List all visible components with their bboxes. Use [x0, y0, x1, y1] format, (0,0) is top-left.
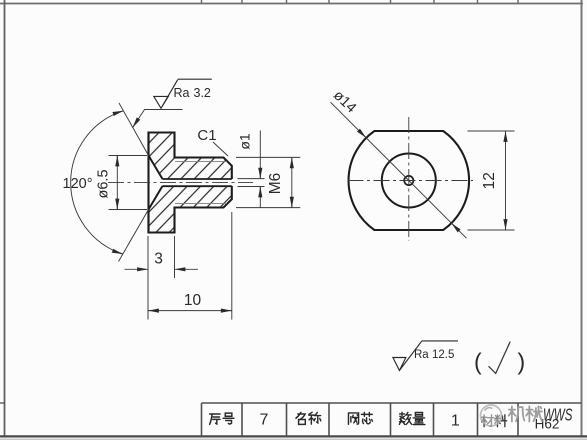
cell text 序号 [210, 413, 234, 424]
C1 leader [213, 142, 228, 156]
cone surface extension line upper [119, 103, 149, 156]
Ra 3.2 surface finish symbol [154, 79, 212, 108]
hole Ø1 walls [163, 179, 232, 186]
part outline left view [149, 133, 232, 233]
right border line [581, 0, 583, 437]
120 degree arc [71, 111, 124, 254]
center hole Ø1 [404, 176, 413, 185]
dim 3 dimension line with outside arrows [125, 268, 148, 270]
left outside tick at title row level [0, 402, 5, 404]
flange left face full edge (countersink opening edge-on) [147, 133, 149, 233]
top remnant ticks of sheet above [202, 0, 519, 4]
watermark text 机械WWS [509, 406, 542, 421]
dim 10 dimension line [148, 310, 232, 312]
svg-text:ø1: ø1 [237, 133, 253, 150]
left border line [4, 0, 6, 437]
other-surfaces check symbol [489, 342, 511, 374]
axis centerline left view [108, 182, 253, 184]
svg-text:C1: C1 [197, 127, 216, 144]
svg-text:(: ( [474, 349, 482, 375]
outer profile circle with flats [349, 131, 470, 230]
bottom border line [0, 435, 587, 437]
dim 12 dimension line [505, 131, 507, 230]
vertical centerline [408, 117, 410, 241]
svg-text:ø6.5: ø6.5 [96, 169, 112, 198]
inner circle Ø6.5 [382, 154, 436, 208]
svg-text:M6: M6 [267, 173, 284, 195]
dim Ø6.5 dimension line [116, 156, 118, 210]
Ra 3.2 leader [133, 110, 183, 128]
svg-text:Ra: Ra [174, 86, 190, 100]
dim 3 extension lines [148, 236, 175, 320]
svg-text:3.2: 3.2 [194, 86, 211, 100]
watermark logo circle [481, 405, 502, 426]
hatch upper region [149, 133, 232, 180]
cell text 名称 [296, 412, 321, 424]
svg-text:12.5: 12.5 [432, 349, 454, 361]
dim Ø1 extension lines [238, 179, 265, 187]
cell text 阀芯 [348, 412, 372, 424]
horizontal centerline [348, 180, 474, 182]
thread minor diameter lines [175, 162, 227, 204]
cell text 数量 [399, 412, 425, 424]
dim M6 extension lines [236, 157, 300, 207]
svg-text:7: 7 [260, 412, 269, 429]
cell text 材料 [482, 415, 507, 427]
svg-text:): ) [518, 349, 526, 375]
countersink cone edges [149, 156, 163, 210]
dim 12 extension lines [468, 131, 515, 230]
dim Ø1 dimension line with outside arrows [259, 131, 261, 179]
svg-text:12: 12 [481, 172, 498, 189]
cone surface extension line lower [119, 210, 149, 262]
dim Ø14 dimension line diagonal [331, 102, 467, 238]
dim M6 dimension line [291, 157, 293, 207]
svg-text:1: 1 [451, 413, 460, 430]
title block top line [202, 402, 582, 404]
faint bottom crop line [0, 438, 587, 440]
svg-text:WWS: WWS [543, 405, 572, 425]
title block column lines [202, 403, 519, 436]
dim Ø6.5 extension lines [109, 156, 148, 210]
hatch lower region [149, 186, 232, 233]
svg-text:120°: 120° [63, 176, 93, 192]
svg-text:3: 3 [154, 251, 163, 268]
svg-text:10: 10 [184, 292, 202, 309]
Ra 12.5 surface symbol [393, 341, 458, 371]
sheet top edge line [0, 3, 583, 5]
dim 10 extension line [231, 212, 233, 320]
svg-text:Ra: Ra [414, 349, 429, 361]
